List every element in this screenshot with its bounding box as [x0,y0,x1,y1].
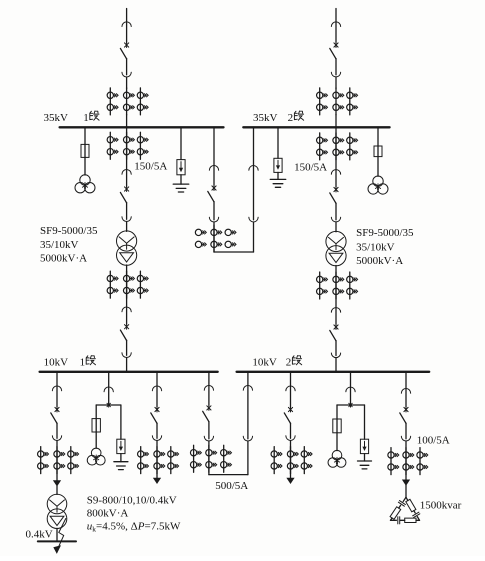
svg-text:10kV: 10kV [252,356,277,368]
current transformer TA3 (35kV bus tie) [195,225,236,252]
wire [364,405,366,439]
drawout link (35kV bus tie to bus 2) [249,166,258,222]
svg-text:150/5A: 150/5A [294,161,327,173]
label 35kV 1duan [44,111,100,124]
wire [335,77,337,89]
wire 35kV bus tie from bus 1 [213,127,215,165]
wire [95,432,97,448]
wire to 10kV bus 1 [126,358,128,372]
wire to 35kV bus 1 [126,115,128,128]
surge arrester F4 (10kV section 2) [360,439,368,453]
label 500/5A [215,480,248,492]
wire capacitor feeder from 10kV bus 2 [405,372,407,389]
10kV bus section 2 (WB4) [237,371,430,373]
current transformer TA2 (incoming 2, 3x2 cores) [317,88,358,115]
ground (arrester F2) [270,179,286,187]
wire 10kV bus tie from bus 1 [208,372,210,386]
ground (arrester F4) [358,461,372,469]
label 1500kvar [420,500,462,512]
wire [120,405,122,439]
circuit breaker QF4 (T1 35kV side) [120,170,131,222]
wire PT branch bus2 [377,127,379,146]
wire [253,222,255,252]
wire [247,441,249,475]
wire incoming line 2 from grid [335,9,337,22]
circuit breaker QF1 (35kV incoming 1, withdrawable) [120,22,131,77]
wire [126,222,128,232]
wire [335,222,337,232]
surge arrester F2 (35kV section 2) [274,158,282,172]
wire to 10kV bus 2 [247,372,249,386]
current transformer TA10 (10kV bus tie) 500/5A [190,445,231,472]
svg-text:800kV·A: 800kV·A [87,508,129,520]
node split PT/arrester 2 [337,403,365,407]
svg-text:1: 1 [83,112,89,124]
current transformer TA7 (T2 10kV side) [317,272,358,299]
wire to 35kV bus 2 [253,127,255,165]
wire [56,486,58,495]
wire [120,454,122,462]
surge arrester F1 (35kV section 1) [177,160,185,175]
label 150/5A right [294,161,327,173]
wire PT branch 10kV bus 1 [108,372,110,387]
current transformer TA5 (T1 10kV side) [107,271,148,298]
load arrow (0.4kV outgoing) [54,519,66,554]
label T2 nameplate [356,227,414,267]
wire [180,175,182,184]
circuit breaker QF11 (feeder 3) [284,386,295,440]
svg-text:1: 1 [80,356,86,368]
wire to 0.4kV bus [56,528,58,540]
cable termination (feeder 1) [54,481,61,486]
cable termination (feeder 3) [287,478,294,483]
cable termination (feeder 2) [154,478,161,483]
wire T2 10kV side [335,266,337,308]
label 100/5A [417,435,450,447]
svg-text:S9-800/10,10/0.4kV: S9-800/10,10/0.4kV [87,494,177,506]
ground (arrester F3) [114,462,128,470]
capacitor bank C1 1500kvar (delta) [390,497,420,524]
circuit breaker QF12 (capacitor feeder) [400,389,411,441]
label 35kV 2duan [253,111,304,124]
wire [377,157,379,177]
wire [405,441,407,480]
fuse FU4 (10kV PT 2) [333,419,341,433]
current transformer TA9 (feeder 2) [138,447,179,474]
svg-text:10kV: 10kV [44,356,69,368]
svg-text:150/5A: 150/5A [134,161,167,173]
current transformer TA4 (T1 35kV side) 150/5A [107,132,148,159]
wire feeder 2 from 10kV bus 1 [156,372,158,386]
35kV bus section 2 (WB2) [243,126,389,128]
10kV bus section 1 (WB3) [40,371,218,373]
svg-text:35kV: 35kV [44,112,69,124]
svg-text:5000kV·A: 5000kV·A [356,255,403,267]
circuit breaker QF7 (T2 10kV side) [330,308,341,358]
wire [156,441,158,479]
wire [126,77,128,89]
svg-text:100/5A: 100/5A [417,435,450,447]
voltage transformer TV3 (10kV section 1) [87,448,105,465]
fuse FU3 (10kV PT 1) [92,419,100,432]
label 0.4kV [26,529,53,541]
0.4kV bus [38,540,76,542]
drawout link (PT branch 1) [104,387,113,405]
fuse FU2 (35kV PT section 2) [374,146,382,157]
svg-text:1500kvar: 1500kvar [420,500,462,512]
voltage transformer TV1 (35kV section 1) [75,175,95,193]
wire [364,454,366,461]
wire [56,441,58,481]
current transformer TA8 (feeder 1) [38,447,79,474]
wire [277,172,279,179]
svg-text:uk=4.5%, ΔP=7.5kW: uk=4.5%, ΔP=7.5kW [87,520,181,533]
wire feeder 1 from 10kV bus 1 [56,372,58,386]
current transformer TA11 (feeder 3) [271,447,312,474]
circuit breaker QF5 (T1 10kV side) [120,307,131,357]
wire to 35kV bus 2 [335,115,337,128]
svg-text:2: 2 [288,112,294,124]
circuit breaker QF8 (feeder 1) [51,386,62,440]
transformer T2 SF9-5000/35 (Y/D) [326,231,346,265]
fuse FU1 (35kV PT section 1) [81,144,89,157]
35kV bus section 1 (WB1) [60,126,224,128]
svg-text:2: 2 [286,356,292,368]
wire PT branch 10kV bus 2 [350,372,352,387]
wire incoming line 1 from grid [126,9,128,22]
label T1 nameplate [40,225,98,265]
wire PT branch bus1 [84,127,86,144]
drawout link (10kV bus tie to bus 2) [243,386,252,441]
ground (arrester F1) [173,184,189,192]
svg-text:35/10kV: 35/10kV [40,239,79,251]
circuit breaker QF2 (35kV incoming 2, withdrawable) [330,22,341,77]
current transformer TA12 (capacitor feeder) 100/5A [388,448,428,475]
current transformer TA1 (incoming 1, 3x2 cores) [107,88,148,115]
svg-text:SF9-5000/35: SF9-5000/35 [356,227,414,239]
wire bus tie jog [209,474,248,476]
surge arrester F3 (10kV section 1) [117,439,125,453]
label 150/5A left [134,161,167,173]
wire T1 10kV side [126,265,128,307]
transformer T3 S9-800/10 (Y/D) [47,494,67,528]
svg-text:35/10kV: 35/10kV [356,241,395,253]
wire [84,157,86,175]
wire arrester branch bus1 [180,127,182,159]
label T3 nameplate [87,494,181,533]
wire [208,441,210,475]
wire [213,222,215,252]
label 10kV 1duan [44,356,96,369]
circuit breaker QF3 (35kV bus tie) [208,166,219,222]
voltage transformer TV2 (35kV section 2) [368,176,388,194]
wire bus tie jog [214,251,254,253]
current transformer TA6 (T2 35kV side) 150/5A [317,133,358,160]
wire transformer T2 branch from bus 2 [335,127,337,169]
svg-text:0.4kV: 0.4kV [26,529,53,541]
wire [290,441,292,479]
wire [336,405,338,419]
circuit breaker QF9 (feeder 2) [151,386,162,440]
wire to 10kV bus 2 [335,358,337,372]
cable termination (capacitor feeder) [403,480,410,485]
voltage transformer TV4 (10kV section 2) [328,450,346,467]
svg-text:35kV: 35kV [253,112,278,124]
circuit breaker QF6 (T2 35kV side) [330,170,341,222]
label 10kV 2duan [252,356,301,369]
svg-text:5000kV·A: 5000kV·A [40,252,87,264]
circuit breaker QF10 (10kV bus tie) [203,386,214,441]
wire to capacitor delta [405,485,407,497]
node split PT/arrester 1 [96,403,121,407]
svg-text:500/5A: 500/5A [215,480,248,492]
wire feeder 3 from 10kV bus 2 [290,372,292,386]
transformer T1 SF9-5000/35 (Y/D) [117,231,137,265]
wire transformer T1 branch from bus 1 [126,127,128,169]
wire [336,433,338,451]
drawout link (PT branch 2) [346,387,355,405]
wire arrester branch bus2 [277,127,279,158]
svg-text:SF9-5000/35: SF9-5000/35 [40,225,98,237]
wire [95,405,97,419]
